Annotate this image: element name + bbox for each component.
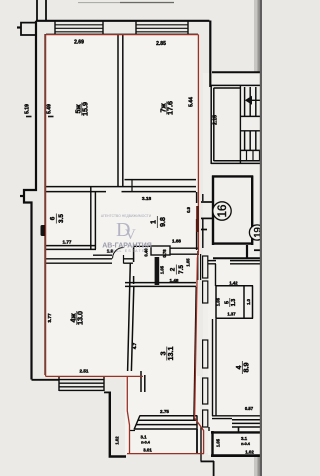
svg-text:1.05: 1.05 — [160, 265, 165, 274]
wire corridor bottom stub down — [213, 461, 215, 476]
svg-text:2.51: 2.51 — [80, 369, 89, 374]
svg-text:17.6: 17.6 — [166, 101, 175, 115]
svg-text:7.5: 7.5 — [178, 265, 185, 274]
stairs lower landing line — [240, 149, 262, 151]
right flat label 4 8.9 — [234, 361, 251, 374]
svg-text:1.02: 1.02 — [245, 450, 254, 455]
wall hallway top upper line — [46, 186, 196, 188]
room label 7ж 17.6 — [159, 101, 175, 115]
wire corridor left wall lower — [200, 427, 202, 461]
door stub entry lower — [201, 217, 212, 219]
wall kitchen top — [170, 248, 199, 254]
svg-text:АГЕНТСТВО НЕДВИЖИМОСТИ: АГЕНТСТВО НЕДВИЖИМОСТИ — [101, 214, 152, 218]
svg-text:0.78: 0.78 — [162, 249, 167, 258]
wall hallway top lower line with door gap — [46, 191, 196, 193]
svg-text:1.77: 1.77 — [63, 240, 72, 245]
wall apt right (hall side) with entry gap — [196, 192, 198, 250]
node left balcony divider wall — [21, 23, 37, 35]
svg-text:1.05: 1.05 — [186, 258, 191, 267]
svg-text:3.77: 3.77 — [47, 313, 53, 323]
red outline loggia bottom — [127, 453, 204, 455]
svg-text:5.19: 5.19 — [25, 104, 31, 114]
red outline bottom room4 — [46, 375, 143, 377]
svg-text:1.3: 1.3 — [231, 299, 237, 307]
node left divider tick — [17, 26, 21, 28]
wall corridor bottom band — [213, 257, 262, 259]
wall left loggia outer — [110, 392, 126, 457]
svg-text:3.5: 3.5 — [58, 214, 65, 223]
svg-text:2: 2 — [169, 267, 176, 271]
wall stair divider — [239, 85, 241, 164]
small black rect on left wall — [41, 225, 47, 236]
wall bath divider solid — [155, 257, 160, 285]
svg-text:1: 1 — [151, 220, 158, 224]
wall pier hallway-kitchen — [151, 246, 170, 255]
WC box right flat — [216, 286, 254, 318]
svg-text:1.05: 1.05 — [216, 438, 221, 447]
wall right of lobby — [254, 249, 262, 251]
corridor wall right of apartment — [202, 194, 204, 248]
window room3 bottom block — [134, 415, 197, 429]
right loggia box — [211, 431, 262, 456]
wire top wall inner line — [46, 33, 198, 35]
flat number 16 circle — [213, 202, 231, 220]
svg-text:3.18: 3.18 — [142, 196, 152, 202]
svg-text:15.9: 15.9 — [81, 102, 90, 116]
svg-text:0.57: 0.57 — [245, 406, 254, 411]
scan edge right — [254, 0, 262, 476]
wall bath cluster top — [133, 245, 151, 247]
wall bath cluster left with door gap — [133, 246, 135, 284]
wall balcony right stub — [104, 391, 110, 393]
corridor bottom walls — [201, 427, 215, 476]
svg-text:16: 16 — [217, 205, 229, 218]
door stub corridor extra — [201, 229, 207, 231]
svg-text:1.37: 1.37 — [227, 312, 236, 317]
wall stub below lobby — [246, 245, 248, 258]
flat number 19 circle — [249, 225, 264, 240]
wall stairwell top — [211, 85, 262, 88]
wall room3 top — [125, 283, 196, 287]
door arc room4 — [113, 248, 124, 259]
svg-text:3.01: 3.01 — [143, 448, 152, 453]
wall right flat top — [208, 261, 262, 264]
wall room4 top with door gap — [46, 259, 133, 263]
red apartment outline left — [45, 35, 47, 377]
svg-text:4.7: 4.7 — [132, 342, 137, 349]
svg-text:3.1: 3.1 — [241, 436, 248, 441]
room label 2 7.5 — [169, 265, 184, 275]
room label 5ж 15.9 — [74, 102, 90, 116]
right flat walls — [203, 256, 262, 456]
room label 3 13.1 — [159, 347, 176, 361]
apartment 16 interior fill — [46, 34, 199, 255]
wall room4|room3 — [128, 263, 134, 371]
wall stairwell bottom — [211, 161, 262, 164]
corridor lower walls — [213, 245, 262, 258]
wall between room5 and room7 — [118, 35, 123, 186]
wall kitchen right (corridor side) — [198, 251, 201, 280]
scan artifact top line — [78, 2, 174, 4]
red apartment outline top — [46, 34, 199, 36]
svg-text:13.1: 13.1 — [166, 347, 175, 361]
stairs lower flight treads — [245, 131, 262, 150]
wall room4(right flat) bottom — [212, 416, 262, 419]
svg-text:2.75: 2.75 — [160, 409, 169, 414]
wall stairwell left — [211, 85, 214, 164]
svg-text:2.85: 2.85 — [156, 41, 166, 47]
wire corridor right wall lower — [208, 427, 210, 431]
room label 6 3.5 — [49, 214, 64, 224]
wire top-right exterior ledge — [212, 71, 262, 73]
svg-text:5.44: 5.44 — [189, 97, 195, 107]
scan border right dark edge — [260, 0, 262, 476]
svg-text:2.15: 2.15 — [213, 115, 219, 125]
svg-text:6: 6 — [49, 216, 56, 220]
svg-text:1.05: 1.05 — [216, 297, 221, 306]
wall room6 right — [91, 187, 96, 249]
stair/lobby interior fill — [203, 73, 262, 453]
svg-text:п-0.4: п-0.4 — [141, 441, 151, 445]
wall flat19 entry divider — [215, 264, 217, 286]
tick dim 5.49 — [48, 116, 54, 118]
svg-text:9.8: 9.8 — [160, 217, 167, 227]
svg-text:п-0.4: п-0.4 — [241, 442, 251, 446]
window room4 right flat — [232, 420, 262, 427]
red apartment outline right upper — [195, 35, 199, 418]
svg-text:1.0: 1.0 — [246, 298, 251, 304]
stairs direction arrow — [246, 99, 261, 101]
wall left exterior outer line — [24, 21, 36, 380]
svg-text:V: V — [125, 227, 136, 243]
tick dim 5.19 — [26, 116, 32, 118]
svg-text:5.49: 5.49 — [47, 104, 53, 114]
wall room3-room4 spacer — [141, 371, 145, 392]
lobby box walls — [212, 176, 253, 246]
svg-text:1.48: 1.48 — [170, 278, 179, 283]
corridor right wall piers — [203, 256, 208, 278]
wire top corridor wall left line — [36, 0, 38, 21]
window W2 room 7 — [136, 21, 188, 34]
node door jamb room7 — [131, 180, 133, 192]
wall apt right lower (room3 side, slight scan skew) — [194, 287, 196, 420]
svg-text:13.0: 13.0 — [76, 311, 85, 325]
svg-text:2.69: 2.69 — [74, 40, 84, 46]
wire top exterior wall outer line — [36, 21, 210, 88]
stairs upper flight treads — [245, 87, 262, 116]
red entry door leaf — [196, 206, 199, 232]
room label 1 9.8 hall — [151, 216, 168, 228]
wall hall bottom stub — [93, 254, 112, 256]
wire top corridor wall right line — [45, 0, 47, 21]
svg-text:8.9: 8.9 — [242, 363, 251, 373]
svg-text:5: 5 — [224, 301, 230, 304]
wire corridor bottom — [201, 460, 215, 462]
node left pilaster tick — [20, 195, 24, 197]
svg-text:REAL ESTATE: REAL ESTATE — [109, 249, 146, 253]
wall room6 bottom — [46, 246, 96, 250]
red outline loggia left drop — [127, 377, 129, 453]
door stub entry upper — [201, 201, 212, 203]
svg-text:1.42: 1.42 — [229, 281, 238, 286]
wall room4(right flat) left — [213, 319, 217, 416]
window room4 balcony block — [59, 377, 104, 391]
door jamb room4 — [123, 255, 125, 264]
room label 4ж 13.0 — [69, 311, 85, 325]
svg-text:1.68: 1.68 — [172, 239, 181, 244]
stairs bottom short treads — [247, 151, 260, 161]
wall room4 bottom / balcony — [32, 377, 127, 457]
right flat label 5 1.3 — [224, 298, 237, 307]
stairs landing lines — [240, 116, 262, 130]
wire room4 bottom outer corner — [32, 379, 60, 381]
svg-text:3.1: 3.1 — [140, 435, 147, 440]
stairwell block — [211, 85, 262, 164]
wall left loggia top edge — [129, 430, 135, 432]
svg-text:1.02: 1.02 — [115, 436, 120, 445]
wall room7 bottom inner line — [125, 179, 197, 181]
window W1 room 5 — [55, 21, 103, 34]
wall loggia divider right — [196, 429, 198, 454]
red outline loggia right side — [195, 418, 204, 454]
svg-text:0.9: 0.9 — [186, 206, 191, 212]
wall left exterior inner line — [44, 34, 46, 375]
